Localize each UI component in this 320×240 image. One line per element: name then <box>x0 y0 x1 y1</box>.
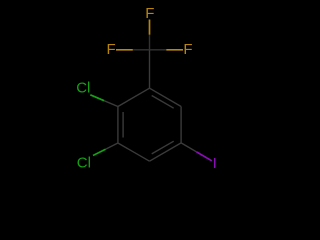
bond C4=C5 <box>150 143 182 161</box>
bond C3-Cl bottom, chlorine half <box>93 149 106 155</box>
bond C3-C4 <box>118 143 150 161</box>
bond C4=C5 inner line <box>152 141 174 154</box>
bond C5-C6 <box>180 107 182 143</box>
bond C2=C3 <box>117 107 119 144</box>
svg-text:F: F <box>145 5 154 22</box>
bond C2=C3 inner line <box>122 112 124 138</box>
bond C1-C2 <box>118 88 150 106</box>
bond C(CF3)-F left, carbon half <box>133 49 150 51</box>
bond C3-Cl bottom, carbon half <box>106 143 118 149</box>
bond C1-C(CF3) <box>149 50 151 88</box>
svg-text:I: I <box>213 155 217 172</box>
bond C(CF3)-F right, fluorine half <box>166 49 183 51</box>
svg-text:Cl: Cl <box>76 79 90 96</box>
bond C(CF3)-F top, carbon half <box>149 35 151 50</box>
bond C(CF3)-F right, carbon half <box>150 49 167 51</box>
bond C6=C1 inner line <box>152 96 174 109</box>
svg-text:F: F <box>183 41 192 58</box>
bond C(CF3)-F top, fluorine half <box>149 20 151 35</box>
bond C(CF3)-F left, fluorine half <box>116 49 133 51</box>
bond C5-I, carbon half <box>181 143 196 152</box>
svg-text:Cl: Cl <box>77 155 91 172</box>
bond C5-I, iodine half <box>197 152 212 161</box>
bond C6=C1 <box>150 88 182 106</box>
svg-text:F: F <box>107 41 116 58</box>
bond C2-Cl top, carbon half <box>104 101 118 107</box>
bond C2-Cl top, chlorine half <box>90 95 104 101</box>
